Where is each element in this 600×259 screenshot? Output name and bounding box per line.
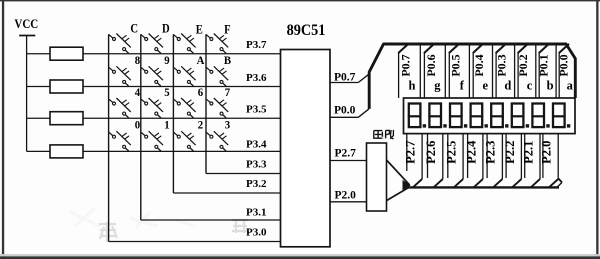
wire P3.4 row segment to chip <box>83 150 281 152</box>
connector segment P2.4 digit select <box>464 134 483 188</box>
wire P3.5 row segment to chip <box>83 117 281 119</box>
connector segment P2.6 digit select <box>424 134 443 188</box>
svg-text:A: A <box>197 55 206 68</box>
resistor R3 <box>50 112 83 125</box>
svg-text:P0.6: P0.6 <box>424 54 438 76</box>
svg-text:9: 9 <box>164 55 170 68</box>
switch key 7 <box>206 98 228 118</box>
connector segment P2.0 digit select <box>540 134 559 188</box>
switch key 3 <box>206 131 228 151</box>
display digit 6 <box>511 104 529 128</box>
connector segment P0.0 to display pin a <box>556 44 573 98</box>
svg-text:4: 4 <box>135 86 141 99</box>
column wire D <box>140 34 142 220</box>
svg-text:P3.0: P3.0 <box>246 227 267 239</box>
switch key D <box>141 34 163 54</box>
svg-text:e: e <box>483 78 489 92</box>
svg-text:P2.2: P2.2 <box>503 141 517 164</box>
switch key B <box>206 66 228 86</box>
svg-text:3: 3 <box>225 119 231 132</box>
display digit 3 <box>449 104 467 128</box>
svg-text:P3.4: P3.4 <box>246 138 267 150</box>
display digit 8 <box>552 104 570 128</box>
driver U2 box <box>367 143 387 211</box>
bus funnel wedge <box>403 180 411 191</box>
label driver (Chinese) <box>374 130 394 139</box>
svg-text:P2.0: P2.0 <box>335 189 357 201</box>
bus P2 collector line <box>408 186 559 188</box>
connector segment P0.2 to display pin c <box>516 44 536 98</box>
svg-text:8: 8 <box>135 55 141 68</box>
connector segment P2.2 digit select <box>503 134 522 188</box>
svg-text:P2.0: P2.0 <box>540 141 554 164</box>
switch key 4 <box>109 98 131 118</box>
wire P3.2 <box>173 192 280 194</box>
svg-text:D: D <box>162 22 170 36</box>
connector segment P0.1 to display pin b <box>537 44 557 98</box>
display digit 5 <box>490 104 508 128</box>
display digit 4 <box>470 104 488 128</box>
connector segment P2.7 digit select <box>403 134 422 188</box>
svg-text:7: 7 <box>225 86 231 99</box>
svg-text:0: 0 <box>135 119 141 132</box>
switch key 8 <box>109 66 131 86</box>
svg-text:P0.1: P0.1 <box>537 54 551 76</box>
switch key 9 <box>141 66 163 86</box>
display digit 1 <box>408 104 426 128</box>
svg-text:5: 5 <box>164 86 170 99</box>
switch key E <box>173 34 195 54</box>
frame border bottom gray <box>0 254 600 256</box>
svg-text:P0.3: P0.3 <box>494 54 508 76</box>
svg-text:a: a <box>567 78 574 92</box>
frame border right <box>596 0 598 257</box>
switch key 1 <box>141 131 163 151</box>
frame border bottom dark <box>0 256 600 259</box>
display digit 2 <box>428 104 446 128</box>
7-segment display DS1 outline <box>404 98 576 134</box>
switch key 2 <box>173 131 195 151</box>
wire P3.3 <box>206 173 281 175</box>
connector segment P0.7 to display pin h <box>398 44 420 98</box>
svg-text:P3.2: P3.2 <box>246 178 267 190</box>
connector segment P2.1 digit select <box>521 134 540 188</box>
svg-text:P0.5: P0.5 <box>448 54 462 76</box>
wire P3.4 row segment left <box>27 150 50 152</box>
resistor R1 <box>50 47 83 60</box>
svg-text:VCC: VCC <box>14 16 38 31</box>
svg-text:89C51: 89C51 <box>287 23 326 40</box>
svg-text:P2.7: P2.7 <box>403 141 417 164</box>
connector segment P0.6 to display pin g <box>424 44 445 98</box>
VCC rail wire <box>26 36 28 152</box>
svg-text:2: 2 <box>198 119 204 132</box>
svg-text:P2.3: P2.3 <box>484 141 498 164</box>
svg-text:P3.6: P3.6 <box>246 72 267 84</box>
switch key 6 <box>173 98 195 118</box>
column wire C <box>108 34 110 241</box>
svg-text:B: B <box>224 55 232 68</box>
wire P3.0 <box>109 241 281 243</box>
wire P2.0 stub <box>330 201 367 203</box>
switch key 5 <box>141 98 163 118</box>
wire P3.6 row segment to chip <box>83 86 281 88</box>
MCU U1 89C51 <box>281 50 331 247</box>
svg-text:P0.4: P0.4 <box>472 54 486 76</box>
svg-text:P0.2: P0.2 <box>516 54 530 76</box>
bus funnel bottom edge <box>387 187 410 201</box>
svg-text:P0.0: P0.0 <box>334 105 356 117</box>
connector segment P0.5 to display pin f <box>448 44 469 98</box>
column wire F <box>205 34 207 173</box>
wire P3.7 row segment left <box>27 53 50 55</box>
switch key A <box>173 66 195 86</box>
bus P2 right end hook <box>558 179 562 183</box>
svg-text:P0.7: P0.7 <box>399 54 413 76</box>
svg-text:P3.7: P3.7 <box>246 39 267 51</box>
svg-text:F: F <box>224 23 230 37</box>
svg-text:6: 6 <box>198 86 204 99</box>
watermark smudge <box>99 219 248 242</box>
svg-text:P3.3: P3.3 <box>246 159 267 171</box>
svg-text:g: g <box>434 78 441 92</box>
connector segment P2.3 digit select <box>484 134 503 188</box>
switch key F <box>206 34 228 54</box>
svg-text:P2.6: P2.6 <box>424 141 438 164</box>
frame border top <box>0 0 600 1</box>
svg-text:E: E <box>196 23 203 37</box>
resistor R4 <box>50 145 83 158</box>
wire P3.7 row segment to chip <box>83 53 281 55</box>
svg-text:P2.4: P2.4 <box>464 140 478 164</box>
svg-text:1: 1 <box>164 119 170 132</box>
svg-text:P2.5: P2.5 <box>444 141 458 164</box>
svg-text:P0.7: P0.7 <box>334 71 356 83</box>
frame border left <box>2 0 4 257</box>
switch key C <box>109 34 131 54</box>
svg-text:C: C <box>130 22 138 36</box>
svg-text:d: d <box>504 78 511 92</box>
svg-text:h: h <box>409 78 416 92</box>
wire P3.6 row segment left <box>27 86 50 88</box>
bus funnel top edge <box>387 160 410 185</box>
wire P3.1 <box>141 219 281 221</box>
wire P2.7 stub <box>330 160 367 162</box>
display digit 7 <box>531 104 549 128</box>
wire P0.7 stub <box>330 82 358 84</box>
connector segment P2.5 digit select <box>444 134 463 188</box>
svg-text:P3.1: P3.1 <box>246 207 266 219</box>
svg-text:P0.0: P0.0 <box>556 54 570 76</box>
svg-text:P2.7: P2.7 <box>335 147 357 159</box>
VCC supply bar <box>19 35 35 37</box>
wire P0.0 riser <box>358 109 369 117</box>
bus P0 thick polyline <box>369 44 575 109</box>
switch key 0 <box>109 131 131 151</box>
column wire E <box>172 34 174 193</box>
svg-text:c: c <box>527 78 533 92</box>
connector segment P0.3 to display pin d <box>494 44 514 98</box>
connector segment P0.4 to display pin e <box>472 44 493 98</box>
svg-text:b: b <box>547 78 554 92</box>
wire P3.5 row segment left <box>27 117 50 119</box>
wire P0.0 stub <box>330 116 358 118</box>
resistor R2 <box>50 80 83 93</box>
svg-text:P3.5: P3.5 <box>246 103 267 115</box>
svg-text:P2.1: P2.1 <box>521 141 535 164</box>
wire P0.7 riser <box>358 74 369 82</box>
